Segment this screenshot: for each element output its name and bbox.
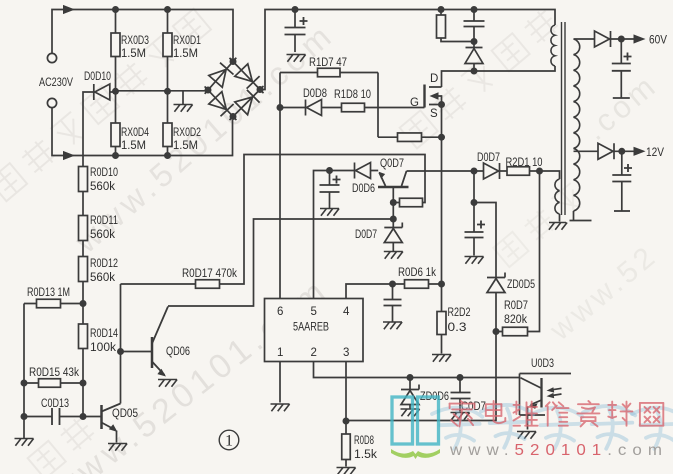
label RX0D2 [173, 127, 201, 139]
svg-text:RX0D4: RX0D4 [121, 127, 149, 139]
node snubber mid [471, 38, 478, 45]
svg-text:ZD0D5: ZD0D5 [507, 279, 535, 291]
node Q0D7 base junction [390, 199, 397, 206]
resistor snubber [437, 15, 446, 38]
label R0D17 [182, 268, 237, 280]
node top bus RX0D1 [164, 6, 171, 13]
svg-text:Q0D7: Q0D7 [380, 158, 404, 170]
wire pin6 / D0D8 column [279, 73, 281, 299]
wire pin1 lead to ground [279, 362, 281, 403]
svg-text:560k: 560k [90, 181, 115, 193]
resistor R0D7 820k [503, 327, 528, 336]
node bridge right [257, 86, 264, 93]
label D0D10 [84, 71, 111, 83]
diode D0D6 [355, 163, 371, 179]
svg-text:RX0D1: RX0D1 [173, 35, 201, 47]
arrow U0D3 emitter [529, 403, 538, 409]
wire ZD0D6 stem [409, 378, 411, 409]
node bridge bottom [230, 113, 237, 120]
label D0D6 [352, 183, 375, 195]
wire gate-source resistor row [378, 136, 442, 138]
value R0D10 [90, 181, 115, 193]
ground R2D2 [432, 355, 451, 362]
watermark red site name characters [450, 401, 475, 426]
node y219 row junction [390, 216, 397, 223]
svg-text:560k: 560k [90, 229, 115, 241]
wire Q0D7 base stem [392, 187, 394, 219]
node drain row [471, 68, 478, 75]
wire QD06 collector row to y219 row [168, 219, 393, 306]
resistor R0D17 470k [196, 280, 220, 289]
wire R2D2 bottom lead [441, 335, 443, 354]
bridge diode bottom-right [230, 86, 264, 120]
wire QD06 base [121, 351, 153, 353]
svg-text:R0D11: R0D11 [90, 215, 118, 227]
diode D0D7 shunt [384, 223, 402, 243]
wire C0D7 stem [459, 378, 461, 412]
wire R1D7 loop top row [280, 72, 378, 74]
svg-text:QD05: QD05 [112, 408, 138, 420]
label U0D3 [531, 358, 554, 370]
wire main filter cap stem [294, 10, 296, 53]
ground aux winding [549, 223, 567, 230]
wire R0D13 row [24, 303, 83, 305]
ground bar secondary [570, 220, 592, 222]
ground bar 60V cap [613, 97, 630, 99]
svg-text:820k: 820k [504, 314, 527, 326]
label R0D11 [90, 215, 118, 227]
node C0D13 / QD05 base [80, 413, 87, 420]
node snubber on bus R [438, 6, 445, 13]
wire RX0D1/RX0D2 column [167, 10, 169, 156]
svg-text:1.5M: 1.5M [173, 48, 198, 60]
node cap474 top [471, 199, 478, 206]
label ZD0D5 [507, 279, 535, 291]
svg-text:1.5k: 1.5k [354, 449, 377, 461]
op-amp U1 5AAREB control IC [265, 299, 364, 362]
value R0D11 [90, 229, 115, 241]
transformer primary winding [551, 25, 555, 66]
wire pin4 riser and R0D6 row [346, 284, 442, 299]
label C0D13 [41, 398, 69, 410]
svg-text:0.3: 0.3 [448, 322, 467, 334]
capacitor at D0D6 node [320, 176, 341, 193]
label D0D7 shunt [355, 229, 377, 241]
node bottom row RX0D4 [112, 152, 119, 159]
wire 12V cap leads [621, 151, 623, 210]
wire aux winding bottom lead [559, 214, 561, 222]
capacitor 60V filter [612, 53, 632, 71]
svg-text:R0D14: R0D14 [90, 328, 118, 340]
wire D0D7 zener stem [392, 219, 394, 252]
resistor gate-source [398, 133, 422, 142]
svg-text:6: 6 [277, 306, 283, 318]
wire QD06 base feed column [120, 284, 122, 404]
ground U0D3 emitter [517, 432, 536, 439]
diode 60V rectifier [595, 31, 611, 47]
node 12V [618, 148, 625, 155]
label RX0D1 [173, 35, 201, 47]
logo blue book [391, 397, 440, 459]
wire R2D1 node to aux winding [540, 171, 560, 179]
resistor RX0D4 1.5M [111, 123, 120, 147]
value R0D12 [90, 272, 115, 284]
node D0D8 anode / pin6 column [277, 104, 284, 111]
label D MOSFET drain [430, 73, 438, 85]
node D0D6 cap top [326, 167, 333, 174]
ground at bridge left node [174, 105, 193, 112]
svg-text:U0D3: U0D3 [531, 358, 554, 370]
svg-text:560k: 560k [90, 272, 115, 284]
wire pin3 lead to R0D8 [345, 362, 347, 467]
ground QD06 emitter [158, 380, 177, 387]
label QD06 [166, 346, 190, 358]
label R0D15 [29, 367, 79, 379]
transistor MOSFET switch [425, 85, 442, 108]
resistor R2D1 10 [507, 167, 530, 176]
transformer core [562, 22, 566, 215]
bridge diode top-right [230, 58, 264, 93]
ground Vcc cap [465, 257, 484, 264]
transformer auxiliary winding [555, 179, 560, 214]
label R0D12 [90, 258, 118, 270]
wire node474 column and jog to ZD0D5 [474, 171, 496, 278]
transistor QD06 [152, 307, 168, 376]
node R0D15 left [21, 380, 28, 387]
resistor RX0D2 1.5M [163, 123, 172, 147]
svg-text:R0D12: R0D12 [90, 258, 118, 270]
terminal AC line1 [47, 53, 56, 62]
ground pin1 [271, 404, 290, 411]
resistor R0D12 560k [79, 257, 88, 282]
resistor RX0D1 1.5M [163, 33, 172, 57]
label R2D1 [506, 157, 543, 169]
resistor Q0D7 base [400, 198, 423, 207]
wire Q0D7 collector row to D0D7/R2D1 [407, 170, 540, 172]
svg-text:5AAREB: 5AAREB [293, 322, 329, 334]
node QD06 base junction [117, 348, 124, 355]
svg-text:12V: 12V [646, 147, 664, 159]
node gate-source resistor [438, 134, 445, 141]
label D0D8 [303, 88, 327, 100]
arrow QD05 emitter [109, 424, 118, 432]
label RX0D4 [121, 127, 149, 139]
wire AC line1 riser and top bus segment to bridge top [52, 10, 233, 59]
wire x378 corner to gate-source resistor [377, 73, 379, 138]
diode D0D8 [306, 100, 322, 116]
svg-text:R0D6 1k: R0D6 1k [398, 267, 436, 279]
node R0D7 left [493, 328, 500, 335]
svg-text:R0D17 470k: R0D17 470k [182, 268, 237, 280]
ground QD05 emitter [108, 444, 127, 451]
diode D0D7 supply [484, 163, 500, 179]
ground pin4 cap [383, 322, 402, 329]
label S MOSFET source [430, 108, 438, 120]
label Q0D7 [380, 158, 404, 170]
arrow on AC line1 [63, 5, 75, 14]
node top bus RX0D3 [112, 6, 119, 13]
resistor R2D2 0.3 [437, 312, 446, 335]
wire D0D6 cap stem [329, 171, 331, 209]
node R0D6 left [389, 281, 396, 288]
node pin3 R0D8 [343, 418, 350, 425]
wire secondary middle tap to 12V diode [574, 150, 634, 152]
resistor R0D13 1M [37, 299, 61, 308]
bridge diode bottom-left [205, 86, 237, 120]
svg-text:G: G [410, 97, 419, 109]
pin 3 [343, 347, 349, 359]
resistor R0D11 560k [79, 216, 88, 241]
svg-text:2: 2 [311, 347, 317, 359]
wire pin2 lead and row to optocoupler [314, 362, 520, 378]
wire secondary top tap to 60V diode [574, 38, 634, 40]
zener ZD0D6 [401, 385, 419, 405]
wire cap at pin4 node [392, 284, 394, 322]
svg-text:R0D13 1M: R0D13 1M [27, 287, 70, 299]
resistor R0D14 100k [79, 324, 88, 349]
svg-text:1.5M: 1.5M [121, 140, 146, 152]
node bridge left [205, 87, 212, 94]
svg-text:1.5M: 1.5M [121, 48, 146, 60]
wire MOSFET source column down to R2D2 [441, 105, 443, 312]
label RX0D3 [121, 35, 149, 47]
label R1D8 [334, 89, 371, 101]
label R0D8 [354, 435, 374, 447]
svg-text:60V: 60V [649, 35, 667, 47]
transformer secondary winding [574, 39, 580, 211]
resistor R0D6 1k [405, 280, 429, 289]
svg-text:D0D8: D0D8 [303, 88, 327, 100]
resistor R0D15 43k [39, 379, 61, 388]
label ZD0D6 [420, 391, 449, 403]
resistor R1D7 47 [318, 68, 341, 77]
svg-text:D0D7: D0D7 [355, 229, 377, 241]
resistor R1D8 10 [342, 103, 365, 112]
wire pin5 column up and left to D0D6 node [314, 171, 330, 299]
wire AC line2 riser and bottom row to bridge bottom [52, 108, 233, 156]
node RX mid left [112, 88, 119, 95]
svg-text:S: S [430, 108, 438, 120]
value RX0D4 [121, 140, 146, 152]
value R0D7 [504, 314, 527, 326]
value RX0D2 [173, 140, 198, 152]
svg-text:AC230V: AC230V [39, 77, 73, 89]
node RX mid right [164, 88, 171, 95]
node bridge top [230, 58, 237, 65]
node main cap on bus [292, 6, 299, 13]
label QD05 [112, 408, 138, 420]
wire D0D8 / R1D8 gate row [280, 107, 425, 109]
svg-text:D0D6: D0D6 [352, 183, 375, 195]
capacitor 12V filter [612, 164, 632, 182]
label G MOSFET gate [410, 97, 419, 109]
wire R0D17 to Q0D7-loop top line and base resistor [121, 155, 426, 285]
svg-text:D0D7: D0D7 [477, 152, 500, 164]
wire bus segment 2 from bridge right node to transformer [260, 10, 555, 90]
svg-text:R2D2: R2D2 [448, 307, 471, 319]
svg-text:R0D8: R0D8 [354, 435, 374, 447]
arrow MOSFET body [430, 92, 439, 99]
terminal AC line2 [47, 98, 56, 107]
svg-text:D0D10: D0D10 [84, 71, 111, 83]
node ZD0D6 [407, 374, 414, 381]
wire R0D15 row [24, 382, 83, 384]
zener ZD0D5 [487, 273, 505, 293]
svg-text:4: 4 [343, 306, 350, 318]
bridge diode top-left [205, 58, 237, 94]
pin 2 [311, 347, 317, 359]
transistor QD05 [102, 404, 121, 443]
label 60V [649, 35, 667, 47]
label AC230V [39, 77, 73, 89]
svg-text:3: 3 [343, 347, 349, 359]
ground of main filter cap [287, 55, 306, 62]
svg-text:D: D [430, 73, 438, 85]
svg-text:R0D7: R0D7 [504, 300, 528, 312]
arrow on AC line2 [63, 151, 75, 160]
value R0D14 [90, 342, 116, 354]
svg-text:R1D8 10: R1D8 10 [334, 89, 371, 101]
node R0D15 junction [80, 380, 87, 387]
pin 4 [343, 306, 350, 318]
arrows U0D3 light input [547, 387, 562, 398]
svg-text:R0D15 43k: R0D15 43k [29, 367, 79, 379]
svg-text:R0D10: R0D10 [90, 167, 118, 179]
svg-text:100k: 100k [90, 342, 116, 354]
node R0D6 right on source column [438, 281, 445, 288]
svg-text:1: 1 [277, 347, 283, 359]
ground ZD0D6 [401, 409, 420, 416]
pin 1 [277, 347, 283, 359]
capacitor at pin4 [384, 300, 402, 306]
label R0D10 [90, 167, 118, 179]
label R1D7 [309, 57, 347, 69]
pin 6 [277, 306, 283, 318]
svg-text:R1D7 47: R1D7 47 [309, 57, 347, 69]
value RX0D1 [173, 48, 198, 60]
node R2D1 right [536, 168, 543, 175]
transistor Q0D7 [378, 171, 409, 187]
optocoupler U0D3 [520, 374, 572, 430]
wire RX middle row to ground stem [116, 91, 209, 104]
node bottom row RX0D2 [164, 152, 171, 159]
pin 5 [311, 306, 317, 318]
arrow Q0D7 emitter [379, 172, 385, 179]
wire D0D6 row [330, 170, 379, 172]
svg-text:C0D13: C0D13 [41, 398, 69, 410]
value RX0D3 [121, 48, 146, 60]
wire 60V cap leads [620, 39, 622, 98]
label R0D14 [90, 328, 118, 340]
svg-text:1: 1 [225, 433, 233, 450]
ground R0D8 [337, 468, 356, 474]
svg-text:5: 5 [311, 306, 317, 318]
node 474 on row171 [471, 168, 478, 175]
svg-text:www.520101.com: www.520101.com [449, 442, 668, 459]
capacitor snubber [464, 21, 485, 27]
svg-text:RX0D2: RX0D2 [173, 127, 201, 139]
value R2D2 [448, 322, 467, 334]
capacitor Vcc filter [465, 221, 486, 238]
svg-text:1.5M: 1.5M [173, 140, 198, 152]
wire R0D7 row and column up to R2D1 node [496, 171, 540, 332]
svg-text:QD06: QD06 [166, 346, 190, 358]
wire secondary bottom lead [573, 211, 575, 220]
diode D0D10 [94, 84, 110, 100]
wire snubber RC branch [441, 10, 474, 72]
wire left column R0D13 to ground [23, 304, 25, 439]
figure number 1 [219, 430, 239, 450]
wire C0D13 row [24, 416, 83, 418]
wire cap at node474 [473, 203, 475, 256]
label IC 5AAREB [293, 322, 329, 334]
node C0D7 [457, 374, 464, 381]
wire drain lead and drain row to transformer primary [442, 66, 556, 87]
ground bar 12V cap [614, 210, 630, 212]
value R0D8 [354, 449, 377, 461]
arrow QD06 emitter [157, 369, 166, 377]
label C0D7 [461, 401, 486, 413]
wire RX0D3/RX0D4 column [115, 10, 117, 156]
capacitor C0D13 [52, 408, 60, 425]
svg-text:RX0D3: RX0D3 [121, 35, 149, 47]
diode 12V rectifier [598, 143, 614, 159]
resistor RX0D3 1.5M [111, 33, 120, 57]
node C0D13 left [21, 413, 28, 420]
node 60V [618, 36, 625, 43]
node R0D13 junction [80, 300, 87, 307]
wire QD05 base [83, 416, 102, 418]
ground D0D7 [384, 252, 403, 259]
diode snubber [465, 48, 483, 64]
label R0D6 [398, 267, 436, 279]
label R2D2 [448, 307, 471, 319]
ground C0D7 [451, 413, 470, 420]
label R0D13 [27, 287, 70, 299]
wire ZD0D5 bottom to pin3 row [346, 293, 496, 421]
watermark blue script characters [432, 405, 673, 449]
node snubber on bus C [471, 6, 478, 13]
wire D0D10 branch down to R0D10 chain [83, 92, 116, 417]
ground left column [15, 439, 34, 446]
node MOSFET source [438, 101, 445, 108]
arrow 12V [634, 147, 646, 156]
resistor R0D10 560k [79, 167, 88, 192]
label D0D7 supply [477, 152, 500, 164]
arrow 60V [634, 34, 646, 43]
label 12V [646, 147, 664, 159]
resistor R0D8 1.5k [342, 434, 351, 460]
svg-text:R2D1 10: R2D1 10 [506, 157, 543, 169]
capacitor main filter [285, 17, 308, 35]
label R0D7 [504, 300, 528, 312]
ground D0D6 cap [320, 209, 339, 216]
capacitor C0D7 [451, 393, 471, 399]
